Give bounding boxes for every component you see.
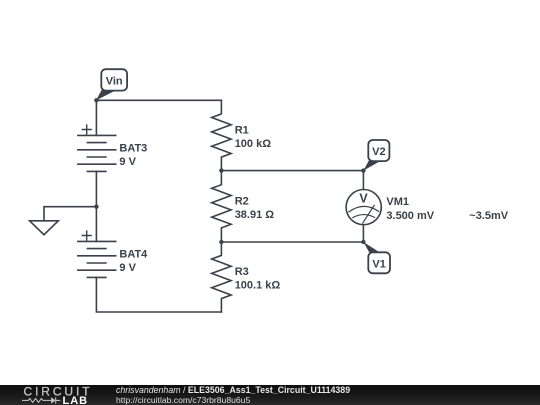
svg-text:100 kΩ: 100 kΩ <box>235 138 272 150</box>
svg-text:~3.5mV: ~3.5mV <box>469 210 508 222</box>
svg-text:100.1 kΩ: 100.1 kΩ <box>235 280 281 292</box>
svg-text:3.500 mV: 3.500 mV <box>386 210 434 222</box>
svg-text:9 V: 9 V <box>119 156 136 168</box>
svg-text:R1: R1 <box>235 125 249 137</box>
svg-text:chrisvandenham / ELE3506_Ass1_: chrisvandenham / ELE3506_Ass1_Test_Circu… <box>116 385 350 395</box>
svg-text:VM1: VM1 <box>386 196 409 208</box>
svg-text:LAB: LAB <box>63 395 89 405</box>
svg-text:R2: R2 <box>235 195 249 207</box>
svg-text:V1: V1 <box>372 258 385 270</box>
svg-text:BAT4: BAT4 <box>119 248 148 260</box>
svg-text:9 V: 9 V <box>119 262 136 274</box>
svg-text:38.91 Ω: 38.91 Ω <box>235 209 275 221</box>
svg-text:V2: V2 <box>372 146 385 158</box>
svg-text:Vin: Vin <box>106 75 123 87</box>
svg-text:http://circuitlab.com/c73rbr8u: http://circuitlab.com/c73rbr8u8u6u5 <box>116 395 250 405</box>
svg-text:R3: R3 <box>235 266 249 278</box>
svg-text:V: V <box>359 191 368 205</box>
svg-text:BAT3: BAT3 <box>119 142 147 154</box>
